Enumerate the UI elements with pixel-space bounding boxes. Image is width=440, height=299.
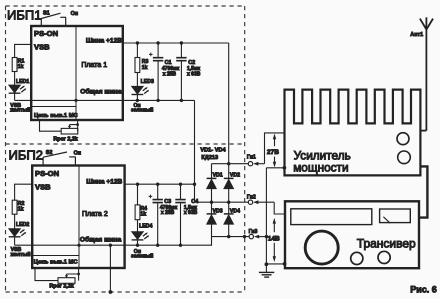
node C2 top (180, 41, 183, 44)
node C4 top (179, 183, 182, 186)
dashed separator between UPS1 and UPS2 (6, 143, 245, 145)
transceiver small knob 1 (351, 252, 363, 264)
resistor R2 (12, 200, 17, 214)
potentiometer Rreg 2,2k UPS1 (40, 120, 62, 131)
node amplifier minus terminal (283, 166, 287, 170)
LED3 (136, 73, 138, 87)
switch S1 (41, 13, 66, 26)
LED4 (137, 220, 139, 232)
svg-text:LED3: LED3 (141, 79, 154, 85)
svg-text:27В: 27В (267, 149, 279, 156)
node +12V feed on cathode line (227, 162, 230, 165)
svg-text:Общая шина: Общая шина (80, 235, 122, 243)
svg-text:LED4: LED4 (139, 224, 152, 230)
svg-text:ИБП1: ИБП1 (7, 8, 41, 23)
svg-text:Общая шина: Общая шина (80, 88, 122, 96)
node partition/common 2 (77, 244, 80, 247)
capacitor C2 (180, 43, 182, 57)
PSU board box Plata 2 (32, 166, 124, 269)
node VD1/VD3 (210, 201, 213, 204)
svg-text:VSB: VSB (35, 182, 51, 191)
PSU board box Plata 1 (31, 26, 123, 120)
node partition/common (74, 99, 77, 102)
svg-text:1k: 1k (18, 207, 24, 213)
plug arrow into Gn3 (254, 235, 259, 239)
svg-text:x 25В: x 25В (163, 72, 177, 78)
plug arrow into Gn2 (253, 200, 258, 204)
capacitor C3 (157, 184, 159, 199)
resistor R4 (137, 184, 139, 205)
wire VSB to R2 (15, 184, 33, 200)
svg-text:x 25В: x 25В (161, 210, 175, 216)
wire 14V middle line to Gn2 (195, 201, 249, 203)
svg-text:Он: Он (71, 11, 78, 17)
transceiver display window (291, 209, 372, 225)
power amplifier box with heatsink comb (285, 90, 421, 176)
wire amp minus to common column (266, 167, 284, 169)
svg-text:желтый: желтый (10, 251, 31, 258)
node at dashed border crossing (243, 235, 246, 238)
screw hole bottom on amplifier (398, 151, 411, 164)
node UPS1-common joins UPS2 +12V (193, 183, 196, 186)
screw hole top on amplifier (397, 133, 409, 145)
resistor R1 (12, 58, 17, 72)
wire R1 to LED1 (14, 72, 16, 86)
wire UPS1 +12V down to diodes (228, 43, 230, 178)
wire Gn1 riser to amplifier 27V input (265, 133, 285, 164)
wire LED1 to common (14, 93, 16, 100)
svg-text:Гн1: Гн1 (247, 155, 256, 161)
svg-text:Он: Он (74, 151, 81, 157)
svg-text:ИБП2: ИБП2 (9, 148, 43, 163)
node LED4 bottom (136, 244, 139, 247)
wire bus +12V UPS1 (123, 42, 229, 44)
node R3 top (136, 41, 139, 44)
transceiver box (285, 201, 419, 268)
svg-text:Цепь выв.1 МС: Цепь выв.1 МС (34, 113, 79, 119)
svg-text:1k: 1k (142, 65, 148, 71)
wire common bus UPS1 (15, 99, 195, 101)
wire 27V cathode line to Gn1 (212, 163, 249, 165)
node chassis at enclosure (109, 290, 113, 294)
svg-text:желтый: желтый (9, 107, 30, 114)
dimension arrow 27V (273, 134, 276, 140)
svg-text:PS-ON: PS-ON (35, 169, 59, 178)
svg-text:Rрег 2,2k: Rрег 2,2k (49, 283, 73, 289)
svg-text:Гн3: Гн3 (249, 229, 258, 235)
node Gn3 wire joins column (265, 235, 268, 238)
dimension arrow 14V (273, 218, 276, 224)
wire VSB to R1 (15, 44, 32, 57)
svg-text:мощности: мощности (293, 160, 348, 174)
transceiver meter (380, 209, 411, 223)
node C3 top (156, 183, 159, 186)
svg-text:x 63В: x 63В (184, 210, 198, 216)
transceiver small knob 2 (378, 251, 390, 263)
node chassis tap (109, 244, 112, 247)
svg-text:Цепь выв.1 МС: Цепь выв.1 МС (34, 259, 79, 265)
transceiver tuning knob (305, 231, 338, 264)
svg-text:LED1: LED1 (16, 79, 29, 85)
svg-text:VSB: VSB (34, 43, 50, 52)
capacitor C1 (157, 43, 159, 57)
node R4 top (136, 183, 139, 186)
svg-text:Шина +12В: Шина +12В (86, 179, 122, 186)
coax transceiver to amplifier (419, 166, 427, 217)
wire to ground symbol (266, 263, 284, 265)
svg-text:S1: S1 (43, 11, 50, 17)
svg-text:VD1- VD4: VD1- VD4 (200, 148, 226, 154)
svg-text:Плата 1: Плата 1 (81, 62, 107, 69)
svg-text:Трансивер: Трансивер (357, 236, 416, 250)
node LED3 bottom (136, 99, 139, 102)
svg-text:1k: 1k (18, 64, 24, 70)
svg-text:x 63В: x 63В (187, 72, 201, 78)
svg-text:Плата 2: Плата 2 (82, 211, 108, 218)
svg-text:Шина +12В: Шина +12В (86, 38, 122, 45)
wire common column down to ground (265, 168, 267, 264)
wire common bus UPS2 (15, 237, 212, 246)
svg-text:14В: 14В (268, 235, 280, 242)
ground (265, 262, 269, 266)
svg-text:зеленый: зеленый (131, 253, 153, 260)
svg-text:Ант1: Ант1 (410, 32, 423, 38)
switch S2 (43, 152, 76, 166)
wire chassis down (109, 245, 111, 292)
plug arrow into Gn1 (253, 162, 258, 166)
svg-text:Рис. 6: Рис. 6 (410, 284, 437, 294)
potentiometer Rreg 2,2k UPS2 (35, 268, 58, 281)
wire UPS1 common down to 14V net (194, 100, 196, 202)
svg-text:S2: S2 (46, 150, 53, 156)
node C1 top (156, 41, 159, 44)
resistor R3 (136, 43, 138, 58)
capacitor C4 (180, 184, 182, 199)
svg-text:зеленый: зеленый (131, 107, 153, 114)
svg-text:PS-ON: PS-ON (34, 29, 58, 38)
svg-text:1k: 1k (140, 212, 146, 218)
wire 14V feed to transceiver (274, 202, 285, 214)
wire R2 to LED2 (14, 214, 16, 228)
svg-text:КД213: КД213 (201, 155, 218, 161)
node VD4 bottom (227, 235, 230, 238)
svg-text:Rрег 2,2k: Rрег 2,2k (53, 137, 77, 143)
node VD2/VD4 (227, 201, 230, 204)
svg-text:LED2: LED2 (16, 222, 29, 228)
dashed enclosure border of UPS units (6, 6, 246, 292)
wire LED2 to common (14, 237, 16, 245)
wire bus +12V UPS2 (125, 183, 195, 185)
node transceiver ground terminal (283, 262, 287, 266)
wire ground line to Gn3 (212, 236, 250, 238)
